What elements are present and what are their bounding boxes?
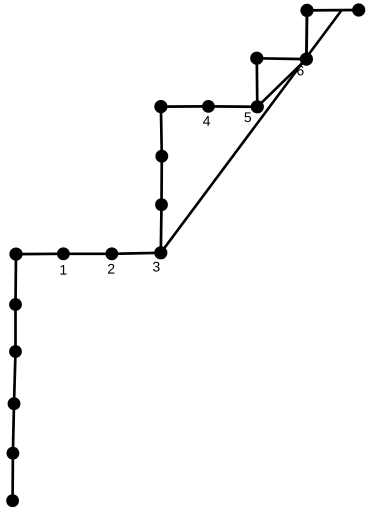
node dot 1 <box>57 247 70 260</box>
node dot 4 <box>202 100 215 113</box>
label 5 <box>244 112 251 122</box>
node dot corner above 3 <box>154 100 167 113</box>
node dot bottom end <box>6 494 19 507</box>
node dot left column a <box>6 447 19 460</box>
label 6 <box>297 66 303 76</box>
label 2 <box>108 264 114 274</box>
wire long diagonal 3 to top line <box>161 11 341 253</box>
node dot 3 <box>154 246 167 259</box>
wire horizontal run corner to 6 <box>257 57 307 60</box>
wire vertical run 6 to top corner <box>305 10 309 59</box>
node dot left column c <box>9 345 22 358</box>
node dot corner 0 <box>9 248 22 261</box>
wire horizontal run corner-4-5 <box>161 105 257 108</box>
node dot top corner <box>300 4 313 17</box>
node dot 5 <box>251 100 264 113</box>
label 4 <box>203 116 210 126</box>
node dot 2 <box>105 247 118 260</box>
wire top horizontal run <box>307 9 359 12</box>
node dot column above 3 lower <box>155 198 168 211</box>
node dot top right end <box>352 3 365 16</box>
node dot left column d <box>9 298 22 311</box>
wire bottom horizontal run 0-3 <box>16 253 161 254</box>
wire vertical run 5 to corner <box>255 58 258 107</box>
node dot left column b <box>8 397 21 410</box>
label 1 <box>60 265 66 275</box>
wire vertical run 3 to corner <box>161 107 162 253</box>
node dot column above 3 upper <box>155 150 168 163</box>
wire left vertical chain <box>13 254 16 501</box>
node dot 6 <box>300 53 313 66</box>
label 3 <box>153 262 160 272</box>
wire short diagonal 5 to 6 <box>257 59 306 107</box>
node dot corner above 5 <box>250 52 263 65</box>
